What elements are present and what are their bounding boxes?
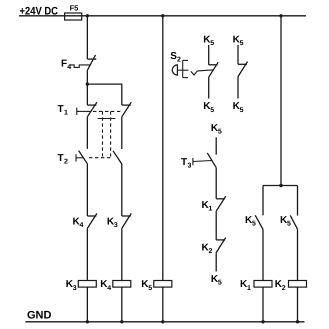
label K5 (bottom of middle chain) [211, 274, 222, 287]
contact T2 right (NO) [113, 151, 122, 164]
label K5 lower-left contact [245, 215, 256, 228]
detent mark on S2 actuator [191, 71, 198, 75]
wire: T3 to K1 contact [215, 168, 217, 199]
node: right branch split [279, 184, 282, 187]
wire: T1 left to T2 left [86, 117, 88, 149]
coil K3 [78, 281, 96, 288]
svg-text:2: 2 [64, 159, 68, 166]
label T1 [58, 104, 69, 117]
svg-text:T: T [58, 153, 64, 164]
wire: K4 contact to coil K3 [86, 228, 88, 280]
contact T3 (NO) [207, 153, 216, 168]
actuator of T2 [76, 154, 84, 161]
svg-text:4: 4 [80, 222, 84, 229]
wire: down to K5 contact left [262, 186, 264, 216]
label K5 (below right contact) [233, 101, 244, 114]
svg-text:T: T [58, 104, 64, 115]
node: GND junction K2 [296, 320, 299, 323]
label coil K1 [240, 279, 251, 292]
mechanical linkage T2 (dashed) [89, 157, 113, 159]
coil K4 [113, 281, 131, 288]
svg-text:T: T [181, 157, 187, 168]
svg-text:+24V DC: +24V DC [20, 5, 59, 17]
GND rail [25, 321, 304, 323]
+24V DC label [20, 5, 59, 17]
svg-text:2: 2 [209, 248, 213, 255]
label S2 [170, 51, 181, 64]
label GND [27, 310, 52, 322]
label T2 [58, 153, 69, 166]
node: junction top rail / middle branch [161, 14, 164, 17]
svg-text:5: 5 [240, 107, 244, 114]
node: GND junction K4 [120, 320, 123, 323]
wire: coil K4 to GND [121, 287, 123, 322]
wire: T2 left to K4 [86, 164, 88, 216]
contact K3 (NC) [122, 213, 132, 228]
svg-text:5: 5 [218, 280, 222, 287]
coil K5 [154, 281, 172, 288]
label K5 (above left S2 contact) [203, 34, 214, 47]
svg-text:1: 1 [64, 110, 68, 117]
wire stub [215, 137, 217, 154]
wire: contact to coil K1 [262, 229, 264, 280]
fuse F5 [65, 13, 82, 20]
svg-text:3: 3 [188, 163, 192, 170]
node: GND junction K5 [161, 320, 164, 323]
contact K5 lower-right (NO) [290, 215, 297, 229]
label F4 [61, 59, 71, 72]
wire: coil K2 to GND [297, 287, 299, 322]
node: branch split [86, 82, 89, 85]
node: junction top rail / right branch [279, 14, 282, 17]
contact K5 right of pair (NC) [238, 62, 248, 77]
wire: middle branch rail to coil K5 [162, 16, 164, 281]
coil K1 [254, 281, 272, 288]
actuator link S2 to contact [197, 70, 212, 71]
label K5 lower-right contact [280, 215, 291, 228]
wire stub [215, 253, 217, 272]
wire: right branch from rail [280, 16, 282, 186]
wire: coil K3 to GND [86, 287, 88, 322]
contact T1 left (NC) [87, 102, 97, 117]
svg-text:F: F [61, 59, 67, 70]
wire stub [237, 77, 239, 99]
wire: K3 contact to coil K4 [121, 228, 123, 280]
wire: F4 to T1 left [86, 70, 88, 105]
svg-text:F5: F5 [70, 4, 79, 13]
svg-text:5: 5 [252, 220, 256, 227]
node: junction top rail / left branch [86, 14, 89, 17]
actuator squiggle of F4 [70, 65, 91, 68]
node: GND junction K3 [86, 320, 89, 323]
wire: right branch tee [263, 185, 298, 187]
svg-text:3: 3 [73, 285, 77, 292]
svg-text:2: 2 [177, 57, 181, 64]
linkage vertical left (dashed) [102, 111, 104, 156]
svg-text:1: 1 [209, 206, 213, 213]
contact K5 lower-left (NO) [255, 215, 263, 229]
label K1 contact [202, 200, 213, 213]
wire stub [237, 45, 239, 64]
svg-text:5: 5 [148, 285, 152, 292]
label coil K3 [66, 279, 77, 292]
contact K4 (NC) [87, 213, 97, 228]
label K3 contact [107, 217, 118, 230]
wire stub [208, 45, 210, 65]
wire: down to K5 contact right [297, 186, 299, 216]
wire: contact to coil K2 [297, 229, 299, 280]
svg-text:4: 4 [107, 285, 111, 292]
contact T1 right (NC) [122, 102, 132, 117]
wire stub [208, 77, 210, 98]
+24V DC supply rail [19, 15, 306, 17]
svg-text:3: 3 [114, 222, 118, 229]
svg-text:1: 1 [247, 285, 251, 292]
wire: branch to right column [87, 84, 121, 105]
linkage vertical right (dashed) [110, 111, 112, 156]
svg-text:GND: GND [27, 310, 52, 322]
actuator of T1 [77, 108, 92, 115]
wire: left branch from rail to F4 [86, 16, 88, 59]
contact K2 (NC) [216, 238, 226, 253]
label coil K5 [141, 279, 152, 292]
label coil K2 [275, 279, 286, 292]
actuator of T3 [193, 158, 212, 165]
label K5 (above right contact) [233, 34, 244, 47]
svg-text:5: 5 [287, 220, 291, 227]
node: GND junction K1 [261, 320, 264, 323]
svg-text:5: 5 [210, 107, 214, 114]
contact T2 left (NO) [79, 151, 88, 164]
contact K5 left of S2 pair (NC) [209, 62, 219, 77]
svg-text:5: 5 [210, 40, 214, 47]
switch S2 (emergency stop) [172, 60, 188, 77]
label K5 (top of middle chain) [211, 123, 222, 136]
mechanical linkage T1 (dashed) [93, 110, 120, 112]
svg-text:5: 5 [240, 40, 244, 47]
wire: coil K1 to GND [262, 287, 264, 322]
contact F4 (NC) [87, 55, 96, 70]
label K5 (below left S2 contact) [203, 101, 214, 114]
wire: T2 right to K3 [121, 164, 123, 216]
wire: coil K5 to GND [162, 287, 164, 322]
coil K2 [289, 281, 307, 288]
label K2 contact [202, 243, 213, 256]
label coil K4 [100, 279, 111, 292]
svg-text:2: 2 [282, 285, 286, 292]
label T3 [181, 157, 192, 170]
label K4 contact [73, 217, 84, 230]
wire: K1 to K2 contact [215, 211, 217, 240]
svg-text:5: 5 [218, 129, 222, 136]
wire: T1 right to T2 right [121, 117, 123, 149]
contact K1 (NC) [216, 196, 226, 211]
linkage bar tick [98, 118, 116, 120]
label F5 [70, 4, 79, 13]
